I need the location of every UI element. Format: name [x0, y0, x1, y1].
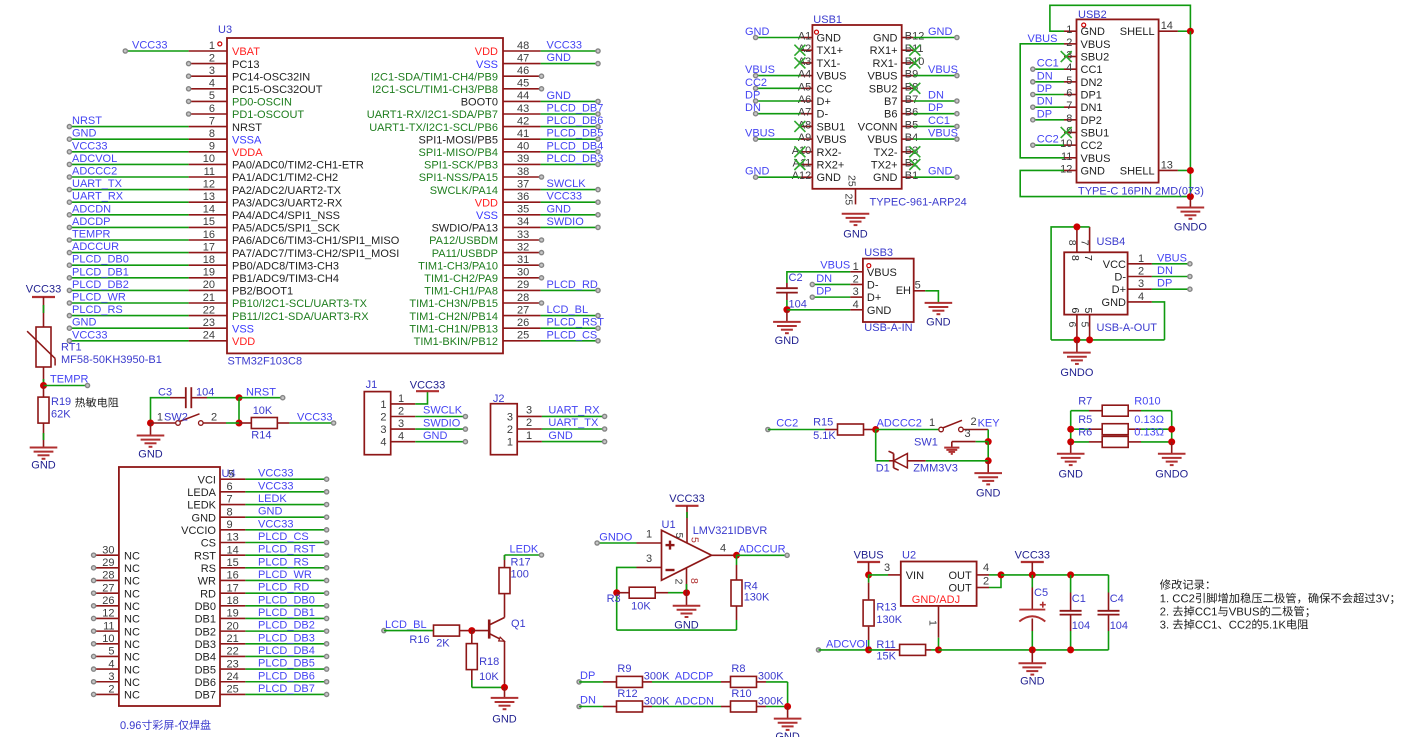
junction GNDO node [1187, 193, 1194, 200]
wire DN to R12 [579, 706, 616, 708]
svg-text:PLCD_RS: PLCD_RS [258, 556, 309, 568]
ground GND (C2) [773, 310, 801, 347]
wire net PLCD_DB5 from U4 pin 23 [245, 667, 328, 671]
wire USB4 bottom rail [1051, 339, 1164, 341]
svg-text:B5: B5 [905, 119, 918, 131]
svg-text:DP: DP [580, 670, 595, 682]
svg-text:GNDO: GNDO [1155, 469, 1188, 481]
svg-text:DP: DP [928, 102, 943, 114]
wire C3 to node NRST [207, 397, 239, 399]
svg-text:VCC33: VCC33 [258, 480, 293, 492]
svg-text:DP: DP [816, 286, 831, 298]
svg-text:ADCCC2: ADCCC2 [877, 417, 922, 429]
svg-text:GND: GND [976, 488, 1001, 500]
U3 pin 25 (TIM1-BKIN/PB12) stub [414, 330, 541, 348]
svg-text:PC13: PC13 [232, 59, 260, 71]
svg-text:CC1: CC1 [1081, 64, 1103, 76]
svg-text:LCD_BL: LCD_BL [547, 304, 589, 316]
USB1 pin B3 (TX2-) stub [874, 145, 919, 159]
svg-text:C1: C1 [1072, 593, 1086, 605]
svg-text:VBUS: VBUS [745, 64, 775, 76]
net label DP [577, 670, 595, 684]
wire net PLCD_RST from U4 pin 14 [245, 553, 328, 557]
svg-text:Q1: Q1 [511, 618, 526, 630]
wire NRST node down to R14 node [238, 398, 240, 423]
svg-text:I2C1-SCL/TIM1-CH3/PB8: I2C1-SCL/TIM1-CH3/PB8 [372, 84, 498, 96]
USB1 pin B11 no-connect X [909, 45, 920, 56]
U3 pin 18 (PB0/ADC8/TIM3-CH3) stub [189, 254, 339, 272]
svg-text:TIM1-CH2/PA9: TIM1-CH2/PA9 [424, 273, 498, 285]
svg-text:36: 36 [517, 191, 529, 203]
U4 pin 29 (NC) stub [92, 557, 140, 575]
zener diode D1 [889, 451, 989, 470]
svg-text:0.13Ω: 0.13Ω [1134, 414, 1164, 426]
svg-text:GND: GND [817, 33, 842, 45]
svg-text:11: 11 [1061, 151, 1072, 163]
svg-text:17: 17 [227, 582, 239, 594]
svg-text:7: 7 [1079, 240, 1091, 246]
connector U4 LCD body [119, 467, 220, 706]
junction U1 V- node [683, 589, 690, 596]
svg-text:RX1+: RX1+ [870, 45, 898, 57]
U4 pin 3 (NC) stub [92, 671, 140, 689]
U3 pin 45 no-connect dot [539, 87, 543, 91]
svg-text:VSS: VSS [476, 210, 498, 222]
junction shell top [1187, 28, 1194, 35]
USB1 pin B1 (GND) stub [873, 170, 918, 184]
connector J1 body [364, 392, 390, 455]
svg-text:SWDIO/PA13: SWDIO/PA13 [432, 223, 498, 235]
U4 pin 13 (CS) stub [201, 532, 246, 550]
wire net GND to U3 pin 8 [67, 137, 188, 141]
svg-text:PLCD_DB4: PLCD_DB4 [547, 140, 604, 152]
svg-text:ADCDP: ADCDP [72, 216, 111, 228]
svg-text:VCI: VCI [198, 474, 216, 486]
resistor R7 [1071, 405, 1172, 416]
resistor R4 feedback [731, 555, 742, 630]
wire shell vertical [1189, 31, 1191, 196]
thermistor RT1 [27, 327, 55, 367]
wire ADCDP rail corner down [787, 682, 789, 707]
power flag VBUS (U2) [854, 549, 884, 562]
svg-text:PLCD_DB6: PLCD_DB6 [547, 115, 604, 127]
svg-text:16: 16 [203, 229, 215, 241]
U3 pin 47 (VSS) stub [476, 52, 541, 70]
U4 pin 20 (DB2) stub [195, 620, 246, 638]
wire VBUS down to VIN node [868, 562, 870, 575]
svg-text:B7: B7 [905, 94, 918, 106]
svg-text:A6: A6 [798, 94, 811, 106]
svg-text:PLCD_DB0: PLCD_DB0 [258, 594, 315, 606]
resistor R12 [617, 701, 643, 712]
wire USB4 pin 4 to bottom rail [1152, 302, 1165, 340]
svg-text:41: 41 [517, 128, 529, 140]
wire net DP to USB3 pin 3 [810, 295, 850, 299]
U1 pin 1 stub [637, 529, 662, 543]
svg-text:BOOT0: BOOT0 [461, 97, 498, 109]
svg-text:GND/ADJ: GND/ADJ [912, 594, 960, 606]
U3 pin 30 no-connect dot [539, 276, 543, 280]
svg-text:SWCLK/PA14: SWCLK/PA14 [430, 185, 498, 197]
svg-text:VDDA: VDDA [232, 147, 263, 159]
svg-text:B12: B12 [905, 31, 925, 43]
U4 pin 24 (DB6) stub [195, 671, 246, 689]
svg-text:RT1: RT1 [61, 342, 82, 354]
transistor Q1 NPN [489, 593, 504, 687]
wire USB2 GND pin12 loop [1020, 170, 1190, 196]
USB1 pin B6 (B6) stub [884, 107, 918, 121]
U3 pin 3 (PC14-OSC32IN) stub [189, 65, 311, 83]
svg-text:5.1K: 5.1K [813, 430, 836, 442]
svg-text:1: 1 [927, 620, 939, 626]
svg-text:GND: GND [423, 430, 448, 442]
svg-text:GND: GND [72, 317, 97, 329]
wire net NRST stub [239, 396, 285, 400]
svg-text:GNDO: GNDO [1174, 222, 1207, 234]
wire net GND from J2 pin 1 [542, 440, 607, 444]
svg-text:5: 5 [1066, 75, 1072, 87]
junction R6 left [1067, 438, 1074, 445]
svg-text:3: 3 [1138, 278, 1144, 290]
svg-text:PLCD_DB0: PLCD_DB0 [72, 254, 129, 266]
svg-text:OUT: OUT [948, 582, 972, 594]
USB2 pin 2 (VBUS) stub [1064, 37, 1110, 51]
wire net VBUS from USB1 pin B4 [913, 137, 959, 141]
wire net VBUS to USB1 pin A4 [754, 74, 801, 78]
svg-text:PLCD_DB1: PLCD_DB1 [72, 266, 129, 278]
svg-text:NC: NC [124, 576, 140, 588]
svg-text:UART_RX: UART_RX [548, 405, 600, 417]
wire net NRST to U3 pin 7 [67, 125, 188, 129]
U4 pin 4 (NC) stub [92, 658, 140, 676]
ground GND (Q1) [491, 687, 519, 725]
svg-text:300K: 300K [758, 671, 784, 683]
svg-text:ADCVOL: ADCVOL [72, 153, 117, 165]
U3 pin 4 (PC15-OSC32OUT) stub [189, 78, 323, 96]
svg-text:R7: R7 [1078, 395, 1092, 407]
wire U1 pin 3 to feedback node [617, 567, 637, 630]
svg-text:TX2-: TX2- [874, 147, 898, 159]
svg-text:10K: 10K [253, 405, 273, 417]
svg-text:VBUS: VBUS [817, 134, 847, 146]
svg-text:GND: GND [1020, 676, 1045, 688]
U3 pin 41 (SPI1-MOSI/PB5) stub [419, 128, 541, 146]
svg-text:D-: D- [1114, 272, 1126, 284]
svg-text:GND: GND [547, 203, 572, 215]
junction R3 left node [613, 589, 620, 596]
svg-text:DB2: DB2 [195, 626, 216, 638]
svg-text:GND: GND [258, 506, 283, 518]
svg-text:27: 27 [517, 304, 529, 316]
wire R14 to VCC33 [289, 421, 335, 425]
svg-text:PA3/ADC3/UART2-RX: PA3/ADC3/UART2-RX [232, 197, 343, 209]
svg-text:LEDK: LEDK [510, 543, 539, 555]
wire net TEMPR [44, 383, 90, 387]
svg-text:PA4/ADC4/SPI1_NSS: PA4/ADC4/SPI1_NSS [232, 210, 340, 222]
wire net GND from USB1 pin B12 [913, 35, 959, 39]
U3 pin 22 (PB11/I2C1-SDA/UART3-RX) stub [189, 304, 370, 322]
svg-text:DB3: DB3 [195, 639, 216, 651]
svg-text:VBUS: VBUS [868, 134, 898, 146]
wire net PLCD_CS from U4 pin 13 [245, 540, 328, 544]
wire net VCC33 from U3 pin 36 [541, 200, 601, 204]
J2 pin 3 stub [507, 405, 542, 424]
svg-text:R17: R17 [511, 556, 531, 568]
svg-text:38: 38 [517, 166, 529, 178]
svg-text:1: 1 [209, 40, 215, 52]
svg-text:2: 2 [108, 684, 114, 696]
svg-text:104: 104 [196, 386, 214, 398]
USB1 pin 25 shield stub [843, 175, 858, 205]
wire USB3 pin 4 to C2 node [787, 309, 850, 311]
svg-text:PC15-OSC32OUT: PC15-OSC32OUT [232, 84, 323, 96]
wire net VCC33 from U4 pin 5 [245, 477, 328, 481]
ground GND (USB1 shield) [842, 214, 870, 241]
svg-text:CC2: CC2 [1081, 140, 1103, 152]
U2 pin 1 (GND/ADJ) stub [927, 606, 939, 650]
svg-text:C3: C3 [158, 386, 172, 398]
power flag VCC33 (U1) [669, 493, 704, 506]
junction C1 bottom [1067, 646, 1074, 653]
svg-text:25: 25 [843, 194, 855, 206]
svg-text:8: 8 [1066, 240, 1078, 246]
wire KEY corner down [987, 430, 989, 442]
svg-text:SW1: SW1 [914, 436, 938, 448]
wire net VCC33 from U3 pin 48 [541, 49, 601, 53]
svg-text:100: 100 [511, 569, 529, 581]
U4 pin 23 (DB5) stub [195, 658, 246, 676]
svg-text:29: 29 [102, 557, 114, 569]
svg-text:NC: NC [124, 601, 140, 613]
USB4 pin 1 (VCC) stub [1103, 253, 1152, 271]
U4 pin 26 (NC) stub [92, 595, 140, 613]
svg-text:B4: B4 [905, 132, 918, 144]
svg-text:GND: GND [745, 26, 770, 38]
wire zener node vertical [987, 442, 989, 461]
wire net GNDO to U1 pin 1 [595, 541, 637, 545]
svg-text:U2: U2 [902, 549, 916, 561]
wire net VBUS from USB1 pin B9 [913, 74, 959, 78]
svg-text:10: 10 [1060, 138, 1072, 150]
svg-text:4: 4 [108, 658, 114, 670]
svg-text:OUT: OUT [948, 570, 972, 582]
svg-text:31: 31 [517, 254, 529, 266]
wire net CC2 to USB1 pin A5 [754, 86, 801, 90]
svg-text:NRST: NRST [72, 115, 102, 127]
svg-text:GND: GND [817, 172, 842, 184]
wire net ADCVOL to U3 pin 10 [67, 162, 188, 166]
wire net PLCD_DB5 from U3 pin 41 [541, 137, 601, 141]
svg-text:PLCD_WR: PLCD_WR [258, 569, 312, 581]
U3 pin 4 no-connect dot [187, 87, 191, 91]
svg-text:NRST: NRST [232, 122, 262, 134]
svg-text:3: 3 [108, 671, 114, 683]
U4 pin 11 (NC) stub [92, 620, 140, 638]
svg-text:300K: 300K [758, 695, 784, 707]
U3 pin 34 (SWDIO/PA13) stub [432, 216, 541, 234]
wire VCC33 stem [1031, 562, 1033, 575]
svg-text:PLCD_DB4: PLCD_DB4 [258, 645, 315, 657]
wire net UART_RX from J2 pin 3 [542, 414, 607, 418]
op-amp U1 triangle [662, 530, 712, 580]
svg-text:NC: NC [124, 664, 140, 676]
svg-text:VCC33: VCC33 [547, 191, 582, 203]
J2 pin 1 stub [507, 430, 542, 449]
svg-text:VBUS: VBUS [867, 267, 897, 279]
USB4 pin 2 (D-) stub [1114, 266, 1152, 284]
svg-text:PB2/BOOT1: PB2/BOOT1 [232, 286, 293, 298]
svg-text:MF58-50KH3950-B1: MF58-50KH3950-B1 [61, 354, 162, 366]
svg-text:DB6: DB6 [195, 677, 216, 689]
U3 pin 31 (TIM1-CH3/PA10) stub [418, 254, 540, 272]
svg-text:SPI1-NSS/PA15: SPI1-NSS/PA15 [419, 172, 498, 184]
U4 pin 28 (NC) stub [92, 570, 140, 588]
svg-text:8: 8 [688, 578, 700, 584]
svg-text:VCC33: VCC33 [297, 411, 332, 423]
svg-text:VCC33: VCC33 [669, 493, 704, 505]
svg-text:B7: B7 [884, 96, 897, 108]
svg-text:U1: U1 [662, 519, 676, 531]
svg-text:3: 3 [398, 418, 404, 430]
svg-text:R8: R8 [731, 663, 745, 675]
wire net DN to USB2 pin 5 [1031, 80, 1064, 84]
svg-text:6: 6 [1066, 322, 1078, 328]
USB2 pin 11 (VBUS) stub [1061, 151, 1110, 165]
USB1 pin B8 no-connect X [909, 83, 920, 94]
svg-text:19: 19 [227, 608, 239, 620]
svg-text:SPI1-MOSI/PB5: SPI1-MOSI/PB5 [419, 134, 498, 146]
svg-text:RD: RD [200, 588, 216, 600]
svg-text:PLCD_RD: PLCD_RD [258, 582, 309, 594]
svg-text:PLCD_RST: PLCD_RST [258, 544, 316, 556]
wire net PLCD_DB0 from U4 pin 18 [245, 604, 328, 608]
U3 pin 39 (SPI1-SCK/PB3) stub [424, 153, 541, 171]
wire net VCC33 to U3 pin 24 [67, 339, 188, 343]
U2 pin 4 stub [977, 562, 1001, 575]
svg-text:UART_RX: UART_RX [72, 191, 124, 203]
wire net DP to USB1 pin A6 [754, 99, 801, 103]
svg-text:4: 4 [398, 431, 404, 443]
wire net PLCD_RS to U3 pin 22 [67, 314, 188, 318]
resistor R10 [731, 701, 757, 712]
wire USB3 EH to GND [925, 291, 938, 303]
svg-text:8: 8 [227, 506, 233, 518]
USB1 pin B2 (TX2+) stub [871, 158, 918, 172]
svg-text:R10: R10 [731, 688, 751, 700]
wire RT1 to node TEMPR [43, 367, 45, 386]
svg-text:4: 4 [380, 437, 386, 449]
USB1 pin A8 no-connect X [794, 121, 805, 132]
junction U2 output node [998, 571, 1005, 578]
svg-text:PB1/ADC9/TIM3-CH4: PB1/ADC9/TIM3-CH4 [232, 273, 339, 285]
svg-text:10: 10 [102, 633, 114, 645]
svg-text:USB1: USB1 [813, 14, 842, 26]
svg-text:TEMPR: TEMPR [72, 229, 111, 241]
svg-text:PLCD_CS: PLCD_CS [258, 531, 309, 543]
svg-text:D+: D+ [817, 96, 831, 108]
svg-text:28: 28 [102, 570, 114, 582]
svg-text:VCCIO: VCCIO [181, 525, 216, 537]
U4 pin 27 (NC) stub [92, 582, 140, 600]
U4 pin 6 (LEDA) stub [187, 481, 245, 499]
svg-text:WR: WR [198, 576, 216, 588]
svg-text:4: 4 [983, 562, 989, 574]
wire net DN from USB1 pin B7 [913, 99, 959, 103]
wire net PLCD_DB2 from U4 pin 20 [245, 629, 328, 633]
net label LCD_BL (Q1 base) [382, 619, 427, 633]
svg-text:3: 3 [526, 405, 532, 417]
U2 pin 2 stub [977, 575, 1001, 588]
wire SW2 left node down from C3 [147, 420, 154, 427]
svg-text:5: 5 [915, 280, 921, 292]
wire R7 block left vertical [1070, 411, 1072, 442]
junction node TEMPR [40, 382, 47, 389]
svg-text:A4: A4 [798, 69, 811, 81]
svg-text:VCONN: VCONN [858, 121, 898, 133]
wire net DN to USB1 pin A7 [754, 112, 801, 116]
wire net UART_TX to U3 pin 12 [67, 188, 188, 192]
svg-text:11: 11 [103, 620, 114, 632]
svg-text:CC: CC [817, 83, 833, 95]
ground GND (R10 node) [774, 707, 802, 737]
svg-text:VCC33: VCC33 [258, 468, 293, 480]
svg-text:1: 1 [157, 411, 163, 423]
svg-text:DN2: DN2 [1081, 77, 1103, 89]
resistor R11 [869, 644, 939, 655]
svg-text:GND: GND [72, 128, 97, 140]
U3 pin 13 (PA3/ADC3/UART2-RX) stub [189, 191, 343, 209]
U3 pin 31 no-connect dot [539, 263, 543, 267]
U4 pin 7 (LEDK) stub [187, 494, 245, 512]
svg-text:C5: C5 [1034, 587, 1048, 599]
IC U2 body [901, 562, 977, 606]
svg-text:PLCD_DB3: PLCD_DB3 [547, 153, 604, 165]
USB4 pin 5 stub (bottom) [1079, 308, 1094, 340]
svg-text:VBUS: VBUS [820, 260, 850, 272]
U4 pin 30 (NC) stub [92, 544, 140, 562]
USB1 pin A2 no-connect X [794, 45, 805, 56]
svg-text:VDD: VDD [475, 197, 498, 209]
resistor R17 [499, 555, 510, 594]
USB2 pin 8 (DP2) stub [1064, 113, 1102, 127]
svg-text:24: 24 [227, 671, 239, 683]
IC U3 STM32F103C8 body [227, 38, 503, 353]
resistor R14 [239, 418, 289, 429]
svg-text:PA2/ADC2/UART2-TX: PA2/ADC2/UART2-TX [232, 185, 342, 197]
svg-text:USB2: USB2 [1078, 9, 1107, 21]
svg-text:USB4: USB4 [1097, 236, 1126, 248]
USB1 pin A11 no-connect X [794, 159, 805, 170]
svg-text:VCC33: VCC33 [132, 40, 167, 52]
svg-text:300K: 300K [644, 695, 670, 707]
U3 pin 1 (VBAT) stub [189, 40, 261, 58]
svg-text:NC: NC [124, 652, 140, 664]
svg-text:SBU1: SBU1 [1081, 127, 1110, 139]
svg-text:CC1: CC1 [928, 115, 950, 127]
USB1 pin A1 marker circle [815, 30, 819, 34]
wire net PLCD_RD from U4 pin 17 [245, 591, 328, 595]
svg-text:NC: NC [124, 677, 140, 689]
USB1 pin A3 (TX1-) stub [798, 56, 841, 70]
svg-text:DP: DP [1037, 83, 1052, 95]
svg-text:8: 8 [209, 128, 215, 140]
wire net CC1 from USB1 pin B5 [913, 124, 959, 128]
svg-text:DB5: DB5 [195, 664, 216, 676]
svg-text:SPI1-SCK/PB3: SPI1-SCK/PB3 [424, 160, 498, 172]
ground GND (RT1 chain) [30, 448, 58, 472]
svg-text:13: 13 [227, 532, 239, 544]
svg-text:2: 2 [673, 579, 685, 585]
